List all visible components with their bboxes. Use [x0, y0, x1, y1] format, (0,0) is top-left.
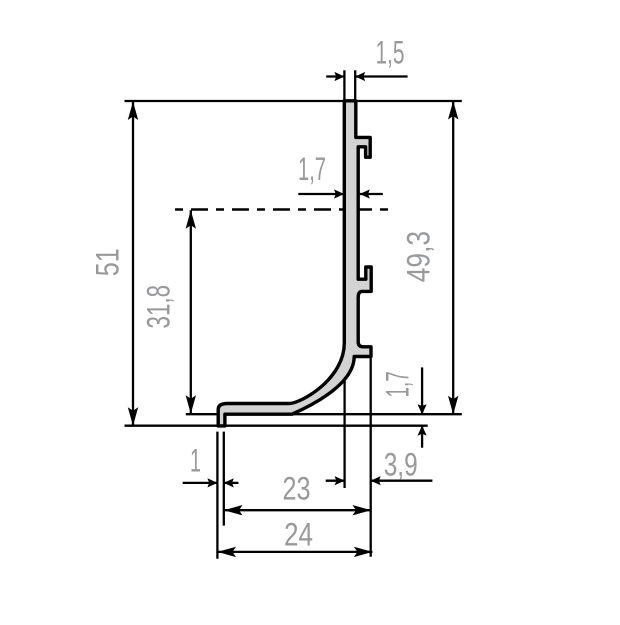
svg-text:49,3: 49,3 [401, 231, 437, 282]
svg-text:1,7: 1,7 [298, 151, 326, 187]
svg-text:31,8: 31,8 [141, 285, 177, 329]
svg-text:24: 24 [284, 516, 313, 552]
svg-text:1,5: 1,5 [376, 34, 405, 70]
svg-text:3,9: 3,9 [384, 447, 418, 483]
svg-text:1: 1 [190, 443, 201, 479]
svg-text:23: 23 [283, 470, 311, 506]
svg-text:1,7: 1,7 [380, 371, 416, 397]
svg-text:51: 51 [90, 248, 126, 276]
